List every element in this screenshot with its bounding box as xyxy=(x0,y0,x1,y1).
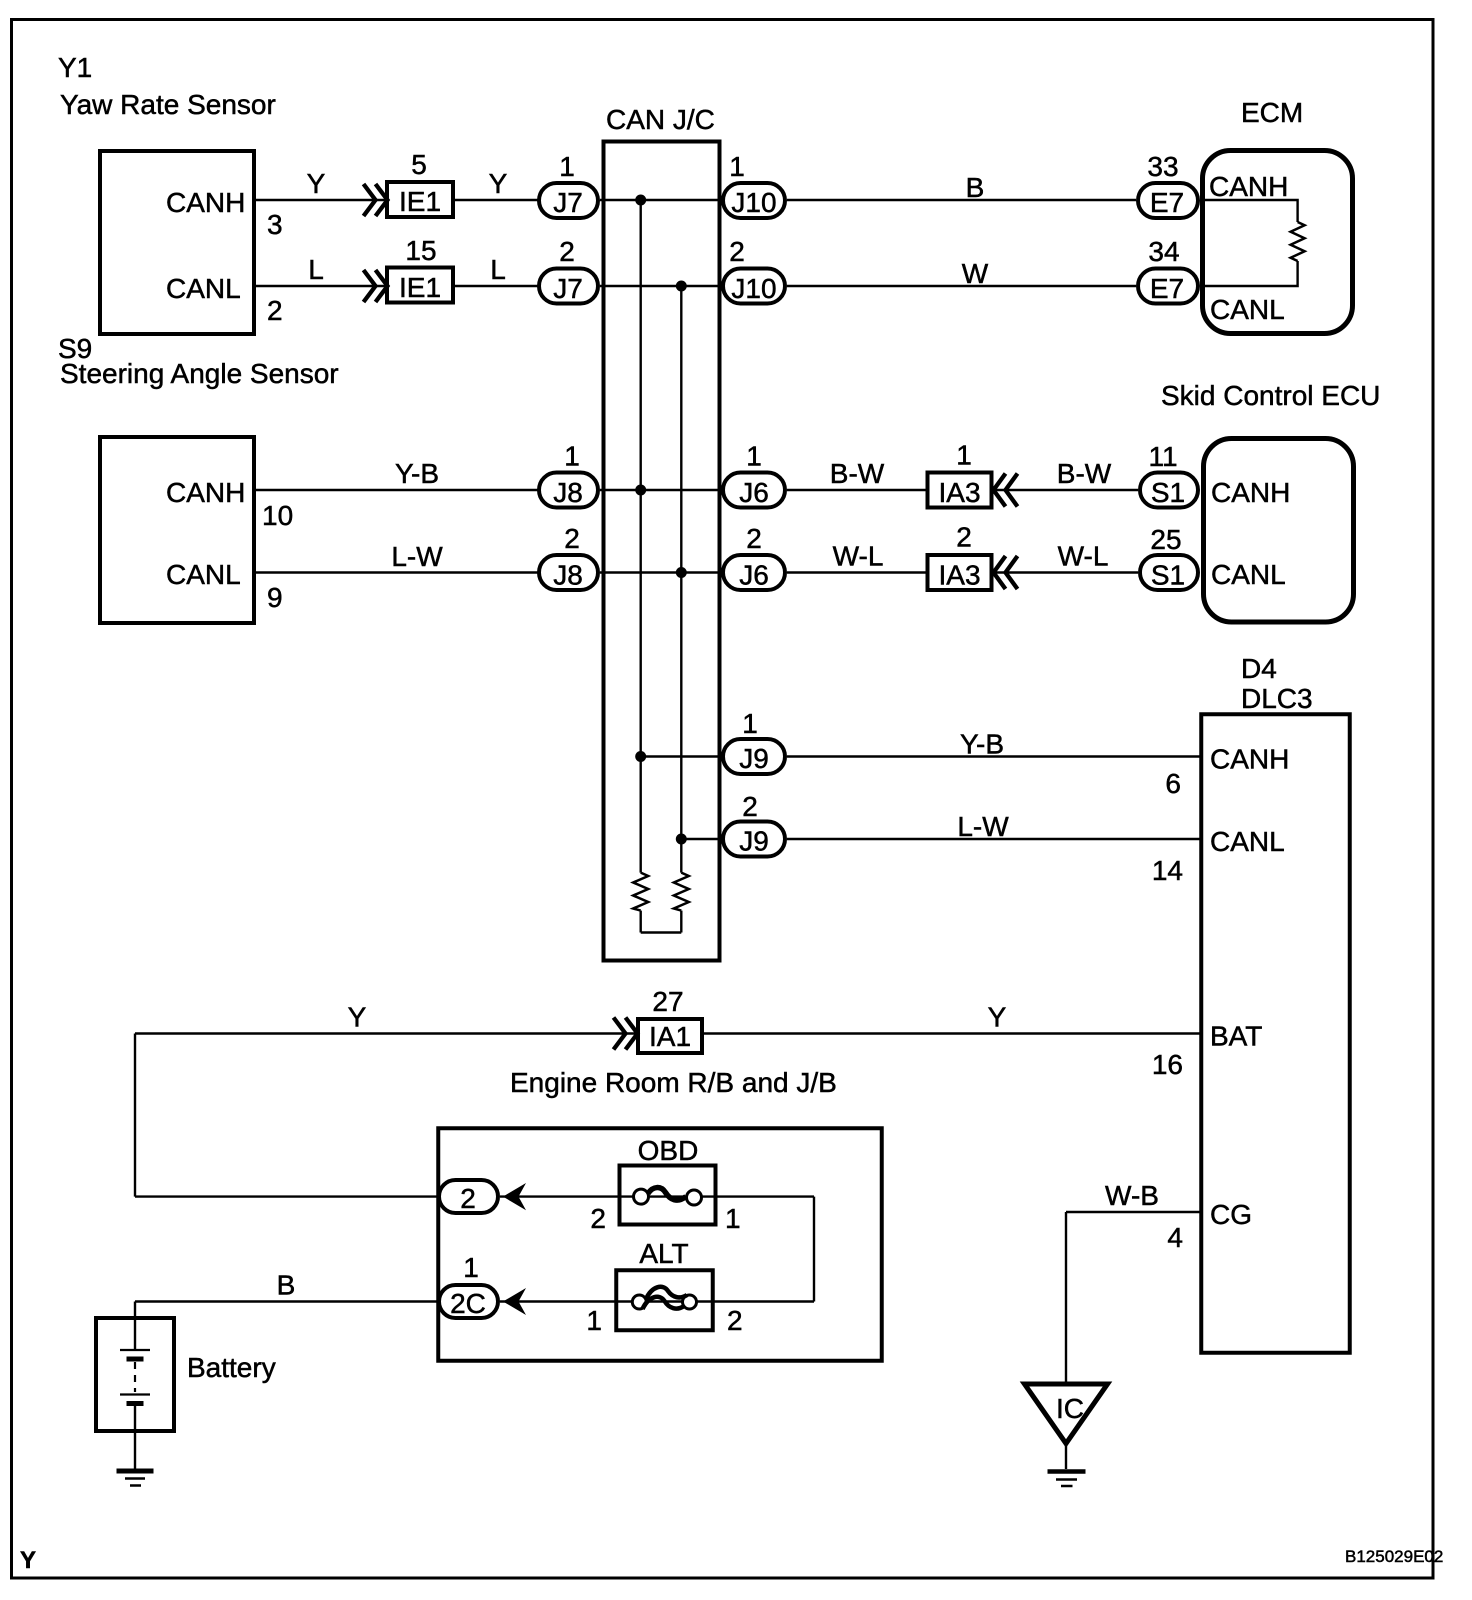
svg-text:S1: S1 xyxy=(1151,477,1185,508)
ECM internal wire CANL side xyxy=(1200,261,1298,286)
wire battery to 2C (B) xyxy=(135,1300,439,1302)
DLC3 box xyxy=(1201,714,1350,1353)
svg-text:Y1: Y1 xyxy=(58,52,92,83)
battery ground symbol bar2 xyxy=(125,1477,145,1480)
CAN bus line B (vertical) xyxy=(680,286,682,873)
svg-text:2C: 2C xyxy=(450,1288,486,1319)
svg-text:IC: IC xyxy=(1056,1393,1084,1424)
svg-text:10: 10 xyxy=(262,500,293,531)
svg-text:B: B xyxy=(277,1270,296,1301)
connector oval J9 pin1 xyxy=(723,739,785,774)
wire joining terminating resistors xyxy=(641,931,682,933)
svg-text:CG: CG xyxy=(1210,1199,1252,1230)
connector oval S1 pin25 xyxy=(1140,555,1198,590)
svg-text:CANH: CANH xyxy=(166,187,245,218)
arrow chevrons into IE1 row2 xyxy=(364,270,388,302)
connector oval E7 pin34 xyxy=(1138,269,1198,304)
wire J10 to E7 row2 xyxy=(787,285,1136,287)
wire DLC3 CG (W-B) xyxy=(1066,1211,1201,1213)
arrow chevrons into IA1 xyxy=(614,1018,638,1050)
wire IE1 to J7 pin2 xyxy=(455,285,539,287)
svg-text:B: B xyxy=(966,172,985,203)
OBD fuse box xyxy=(620,1166,716,1225)
svg-text:1: 1 xyxy=(742,708,758,739)
svg-text:IA1: IA1 xyxy=(649,1021,691,1052)
svg-text:J7: J7 xyxy=(553,187,583,218)
svg-text:Battery: Battery xyxy=(187,1352,276,1383)
connector oval J7 pin2 xyxy=(539,269,598,304)
arrow chevrons out of IA3 row4 xyxy=(994,556,1018,589)
svg-text:Y-B: Y-B xyxy=(395,458,439,489)
svg-text:J9: J9 xyxy=(739,826,769,857)
svg-text:J6: J6 xyxy=(739,560,769,591)
engine room R/B and J/B box xyxy=(438,1128,882,1361)
svg-text:W-B: W-B xyxy=(1105,1180,1159,1211)
CAN junction connector box xyxy=(604,142,720,961)
wire J8 to J6 row4 through junction block xyxy=(600,571,721,573)
svg-text:CAN J/C: CAN J/C xyxy=(606,104,715,135)
connector oval E7 pin33 xyxy=(1138,183,1198,218)
ALT fuse element right circle xyxy=(683,1295,697,1309)
ground triangle IC xyxy=(1025,1384,1108,1444)
wire OBD to ALT vertical link xyxy=(813,1197,815,1302)
connector oval J7 pin1 xyxy=(539,183,598,218)
svg-text:E7: E7 xyxy=(1150,187,1184,218)
wire ALT fuse right side xyxy=(713,1300,814,1302)
svg-text:2: 2 xyxy=(559,236,575,267)
svg-text:J8: J8 xyxy=(553,560,583,591)
terminating resistor bus B xyxy=(674,873,689,911)
wire IA3 to S1 pin25 (W-L) xyxy=(993,571,1138,573)
svg-text:Yaw Rate Sensor: Yaw Rate Sensor xyxy=(60,89,276,120)
svg-text:BAT: BAT xyxy=(1210,1021,1262,1052)
svg-text:2: 2 xyxy=(564,523,580,554)
svg-text:3: 3 xyxy=(267,209,283,240)
connector oval 2C xyxy=(439,1285,498,1318)
svg-text:Y: Y xyxy=(307,168,326,199)
junction connector IA3 (row3) xyxy=(928,473,992,508)
svg-text:1: 1 xyxy=(725,1203,741,1234)
svg-text:2: 2 xyxy=(590,1203,606,1234)
svg-text:W: W xyxy=(962,258,989,289)
CAN bus line A (vertical) xyxy=(640,200,642,873)
arrow chevrons into IE1 row1 xyxy=(364,184,388,216)
svg-text:1: 1 xyxy=(586,1305,602,1336)
wire yaw CANL to IE1 row2 xyxy=(256,285,387,287)
IC ground symbol bar2 xyxy=(1056,1478,1077,1481)
terminating resistor bus A xyxy=(633,873,648,911)
battery cell short plate top xyxy=(127,1357,144,1362)
svg-text:CANH: CANH xyxy=(1210,744,1289,775)
ALT fusible link wave upper xyxy=(646,1287,687,1299)
wire J7 to J10 row2 through junction block xyxy=(600,285,721,287)
svg-text:2: 2 xyxy=(460,1183,476,1214)
junction dot bus B row4 xyxy=(676,567,687,578)
battery cell long plate top xyxy=(120,1349,150,1351)
ECM internal wire CANH side xyxy=(1200,200,1298,222)
arrow chevrons out of IA3 row3 xyxy=(994,474,1018,507)
svg-text:J10: J10 xyxy=(731,273,776,304)
solid arrowhead at connector 2C xyxy=(503,1288,526,1315)
svg-text:B125029E02: B125029E02 xyxy=(1345,1547,1443,1566)
svg-text:S1: S1 xyxy=(1151,560,1185,591)
svg-text:1: 1 xyxy=(559,151,575,182)
svg-text:OBD: OBD xyxy=(638,1135,699,1166)
svg-text:IE1: IE1 xyxy=(399,186,441,217)
svg-text:IE1: IE1 xyxy=(399,272,441,303)
wire bus A to J9 pin1 xyxy=(641,755,721,757)
svg-text:Y-B: Y-B xyxy=(960,729,1004,760)
svg-text:CANL: CANL xyxy=(166,273,241,304)
wire IE1 to J7 pin1 xyxy=(455,199,539,201)
svg-text:CANH: CANH xyxy=(1211,477,1290,508)
svg-text:Y: Y xyxy=(20,1547,36,1574)
svg-text:1: 1 xyxy=(746,441,762,472)
wire J6 pin1 to IA3 (B-W) xyxy=(787,489,926,491)
connector oval J6 pin1 xyxy=(723,473,785,508)
wire battery feed Y horizontal to IA1 xyxy=(135,1032,638,1034)
junction connector IA3 (row4) xyxy=(928,555,992,590)
wire IA1 to DLC3 BAT (Y) xyxy=(704,1032,1201,1034)
wire J8 to J6 row3 through junction block xyxy=(600,489,721,491)
junction connector IA1 xyxy=(638,1019,702,1053)
wire bus B to J9 pin2 xyxy=(681,838,721,840)
svg-text:IA3: IA3 xyxy=(938,477,980,508)
svg-text:L: L xyxy=(308,254,324,285)
ALT fusible link box xyxy=(616,1270,713,1330)
svg-text:CANH: CANH xyxy=(166,477,245,508)
skid control ECU box xyxy=(1204,439,1354,623)
svg-text:ALT: ALT xyxy=(639,1238,688,1269)
svg-text:9: 9 xyxy=(267,582,283,613)
wire 2C to ALT fuse xyxy=(500,1300,614,1302)
svg-text:L-W: L-W xyxy=(957,811,1009,842)
svg-text:L: L xyxy=(490,254,506,285)
svg-text:2: 2 xyxy=(956,522,972,553)
svg-text:CANH: CANH xyxy=(1209,171,1288,202)
svg-text:IA3: IA3 xyxy=(938,560,980,591)
connector oval J8 pin1 xyxy=(539,473,598,508)
svg-text:J9: J9 xyxy=(739,743,769,774)
connector oval J8 pin2 xyxy=(539,555,598,590)
steering angle sensor box S9 xyxy=(100,437,254,623)
wire CG vertical drop to IC ground xyxy=(1065,1212,1067,1382)
svg-text:B-W: B-W xyxy=(1057,458,1112,489)
svg-text:2: 2 xyxy=(267,295,283,326)
svg-text:2: 2 xyxy=(727,1305,743,1336)
wire through ALT fuse box xyxy=(614,1300,713,1302)
wire to connector 2 xyxy=(135,1195,439,1197)
ECM box xyxy=(1203,151,1353,334)
connector oval J6 pin2 xyxy=(723,555,785,590)
ALT fuse element left circle xyxy=(632,1295,646,1309)
resistor tail wire bus A xyxy=(640,911,642,933)
wire steering CANH to J8 pin1 xyxy=(256,489,539,491)
svg-text:CANL: CANL xyxy=(1210,826,1285,857)
svg-text:J6: J6 xyxy=(739,477,769,508)
svg-text:34: 34 xyxy=(1148,236,1179,267)
svg-text:Skid Control ECU: Skid Control ECU xyxy=(1161,380,1380,411)
IC ground symbol bar3 xyxy=(1061,1485,1073,1488)
IC ground symbol bar1 xyxy=(1048,1469,1086,1474)
solid arrowhead at connector 2 xyxy=(503,1183,526,1210)
svg-text:DLC3: DLC3 xyxy=(1241,683,1313,714)
svg-text:B-W: B-W xyxy=(830,458,885,489)
svg-text:CANL: CANL xyxy=(1210,294,1285,325)
battery negative lead to ground xyxy=(134,1404,136,1470)
junction dot bus A row5 xyxy=(635,751,646,762)
wire Y vertical drop on left xyxy=(134,1034,136,1197)
battery cell short plate bottom xyxy=(127,1401,144,1406)
battery box xyxy=(96,1318,174,1431)
svg-text:25: 25 xyxy=(1150,524,1181,555)
wire battery positive lead xyxy=(134,1302,136,1351)
svg-text:W-L: W-L xyxy=(833,541,884,572)
OBD fuse element left circle xyxy=(634,1189,649,1204)
wire connector 2 to OBD fuse xyxy=(500,1195,617,1197)
svg-text:16: 16 xyxy=(1152,1049,1183,1080)
svg-text:ECM: ECM xyxy=(1241,97,1303,128)
junction connector IE1 (row2) xyxy=(387,268,453,303)
yaw rate sensor box Y1 xyxy=(100,151,254,334)
terminating resistor inside ECM xyxy=(1291,222,1305,261)
svg-text:E7: E7 xyxy=(1150,273,1184,304)
wire J9 pin1 to DLC3 CANH (Y-B) xyxy=(787,755,1201,757)
junction connector IE1 (row1) xyxy=(387,182,453,217)
wire J7 to J10 row1 through junction block xyxy=(600,199,721,201)
svg-text:5: 5 xyxy=(411,149,427,180)
svg-text:2: 2 xyxy=(746,523,762,554)
svg-text:1: 1 xyxy=(463,1252,479,1283)
svg-text:27: 27 xyxy=(652,986,683,1017)
battery dashed middle link xyxy=(134,1362,136,1392)
OBD fuse element right circle xyxy=(687,1190,702,1205)
resistor tail wire bus B xyxy=(680,911,682,933)
wire IC triangle to ground xyxy=(1065,1444,1067,1470)
svg-text:Engine Room R/B and J/B: Engine Room R/B and J/B xyxy=(510,1067,837,1098)
svg-text:J8: J8 xyxy=(553,477,583,508)
svg-text:14: 14 xyxy=(1152,855,1183,886)
svg-text:L-W: L-W xyxy=(391,541,443,572)
svg-text:CANL: CANL xyxy=(1211,559,1286,590)
wire J9 pin2 to DLC3 CANL (L-W) xyxy=(787,838,1201,840)
ALT fusible link wave lower xyxy=(643,1297,685,1309)
connector oval J10 pin2 xyxy=(723,269,785,304)
battery ground symbol bar3 xyxy=(130,1484,141,1487)
svg-text:Y: Y xyxy=(988,1002,1007,1033)
junction dot bus A row1 xyxy=(635,195,646,206)
svg-text:J7: J7 xyxy=(553,273,583,304)
svg-text:1: 1 xyxy=(564,441,580,472)
wire J10 to E7 row1 xyxy=(787,199,1136,201)
wire yaw CANH to IE1 xyxy=(256,199,387,201)
battery ground symbol bar1 xyxy=(117,1469,154,1474)
svg-text:1: 1 xyxy=(729,151,745,182)
svg-text:33: 33 xyxy=(1147,151,1178,182)
svg-text:Y: Y xyxy=(348,1002,367,1033)
svg-text:Y: Y xyxy=(489,168,508,199)
svg-text:W-L: W-L xyxy=(1058,541,1109,572)
svg-text:J10: J10 xyxy=(731,187,776,218)
svg-text:1: 1 xyxy=(956,440,972,471)
connector oval J9 pin2 xyxy=(723,822,785,857)
connector oval 2 xyxy=(439,1180,498,1213)
wire J6 pin2 to IA3 (W-L) xyxy=(787,571,926,573)
connector oval J10 pin1 xyxy=(723,183,785,218)
junction dot bus B row2 xyxy=(676,281,687,292)
OBD fuse element wave xyxy=(648,1188,686,1201)
svg-text:6: 6 xyxy=(1165,768,1181,799)
wire IA3 to S1 pin11 (B-W) xyxy=(993,489,1138,491)
junction dot bus A row3 xyxy=(635,485,646,496)
svg-text:2: 2 xyxy=(742,791,758,822)
battery cell long plate bottom xyxy=(120,1393,150,1395)
svg-text:11: 11 xyxy=(1148,441,1177,472)
svg-text:D4: D4 xyxy=(1241,653,1277,684)
svg-text:CANL: CANL xyxy=(166,559,241,590)
svg-text:4: 4 xyxy=(1167,1222,1183,1253)
wire through OBD fuse box xyxy=(617,1195,814,1197)
svg-text:15: 15 xyxy=(405,235,436,266)
svg-text:2: 2 xyxy=(729,236,745,267)
svg-text:Steering Angle Sensor: Steering Angle Sensor xyxy=(60,358,339,389)
wire steering CANL to J8 pin2 xyxy=(256,571,539,573)
connector oval S1 pin11 xyxy=(1140,473,1198,508)
junction dot bus B row6 xyxy=(676,834,687,845)
